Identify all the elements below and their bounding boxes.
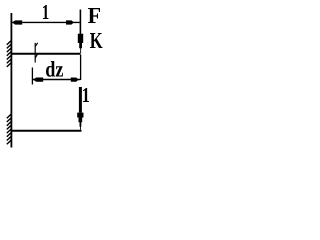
label 1 (unit load)	[83, 88, 89, 102]
wall hatching top	[7, 40, 12, 67]
wall hatching bottom	[7, 114, 12, 144]
dz dim line	[33, 79, 80, 81]
unit load arrowhead	[77, 113, 83, 130]
force F shaft	[79, 10, 81, 35]
cut mark	[35, 43, 38, 63]
force F arrowhead	[78, 34, 83, 54]
dz left tick	[31, 68, 33, 85]
dz arrow left	[33, 78, 43, 82]
label F	[88, 8, 100, 23]
dim arrow right	[66, 20, 74, 24]
dz arrow right	[71, 78, 79, 82]
label 1 (length)	[43, 5, 48, 19]
unit load shaft	[79, 87, 82, 113]
dz right extension	[80, 55, 82, 81]
top beam	[11, 53, 80, 55]
label K	[90, 33, 102, 48]
bottom beam	[11, 130, 82, 132]
dim arrow left	[12, 20, 22, 24]
label dz	[46, 61, 55, 77]
wall line	[10, 13, 12, 148]
top dimension line	[12, 21, 80, 23]
